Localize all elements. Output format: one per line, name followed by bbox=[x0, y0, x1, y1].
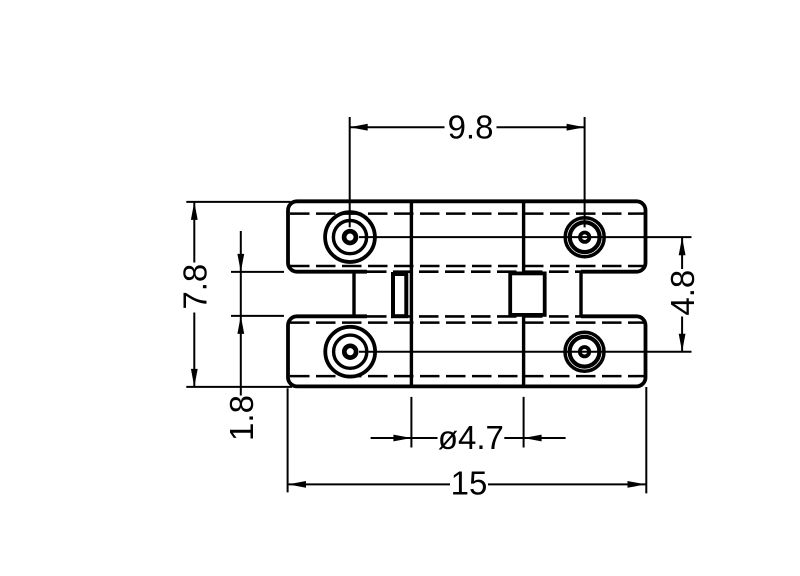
bore silhouette right bbox=[522, 200, 525, 388]
dim 7.8 extension lines bbox=[186, 202, 292, 387]
dim 15 line bbox=[288, 483, 646, 485]
dim 4.7 line bbox=[371, 437, 566, 439]
boss top-left bbox=[325, 212, 375, 262]
dim 4.7 extension lines bbox=[411, 397, 523, 448]
dim 9.8 line bbox=[350, 126, 585, 128]
right link bbox=[579, 272, 582, 317]
dim 7.8 line bbox=[193, 202, 195, 387]
hidden-edge patch bottom bar top bbox=[367, 313, 581, 319]
bottom bar body bbox=[288, 316, 646, 386]
hidden line bottom bar lower bbox=[290, 375, 644, 378]
boss bottom-left bbox=[325, 327, 375, 377]
hidden line top bar lower bbox=[290, 265, 644, 268]
top bar body bbox=[288, 201, 646, 271]
hidden-edge patch top bar bottom bbox=[367, 269, 581, 275]
svg-text:7.8: 7.8 bbox=[176, 264, 213, 310]
centerline vertical right bbox=[584, 117, 586, 227]
svg-text:9.8: 9.8 bbox=[448, 109, 494, 146]
square block bbox=[510, 273, 545, 315]
centerline horizontal top bbox=[359, 236, 692, 238]
svg-text:1.8: 1.8 bbox=[223, 395, 260, 441]
boss bottom-right bbox=[565, 332, 604, 371]
svg-text:ø4.7: ø4.7 bbox=[438, 419, 504, 456]
dim 15 extension lines bbox=[288, 387, 647, 493]
dim 4.8 line bbox=[681, 237, 683, 352]
dim 7.8 arrows bbox=[191, 202, 198, 220]
dim 15 arrows bbox=[288, 481, 306, 488]
hidden line bottom bar upper bbox=[290, 321, 644, 324]
boss top-right bbox=[565, 218, 604, 257]
dim 4.7 arrows bbox=[393, 435, 411, 442]
svg-text:4.8: 4.8 bbox=[664, 270, 701, 316]
dim 1.8 arrows bbox=[237, 254, 244, 272]
dim 4.8 arrows bbox=[679, 237, 686, 255]
dim 9.8 arrows bbox=[350, 124, 368, 131]
narrow block bbox=[393, 274, 406, 316]
hidden line top bar upper bbox=[290, 212, 644, 215]
svg-text:15: 15 bbox=[451, 464, 488, 501]
dim 1.8 line bbox=[240, 231, 242, 396]
dashed top edge of bottom bar (middle) bbox=[367, 315, 581, 318]
dim 1.8 extension lines bbox=[231, 272, 284, 316]
centerline horizontal bottom bbox=[359, 351, 692, 353]
left link bbox=[352, 272, 355, 317]
centerline vertical left bbox=[349, 117, 351, 227]
bore silhouette left bbox=[410, 200, 413, 388]
dashed bottom edge of top bar (middle) bbox=[367, 270, 581, 273]
